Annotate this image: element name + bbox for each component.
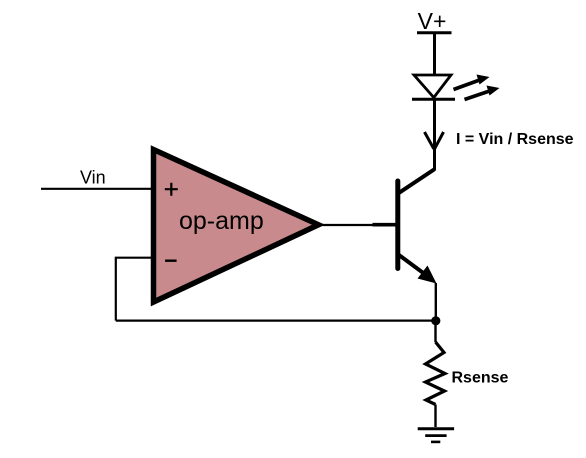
op-amp U1 body [154,150,319,303]
resistor Rsense lead top [434,323,436,342]
wire emitter to node [435,283,437,318]
power rail V+ bar [417,31,452,34]
LED light arrow 1 [454,75,490,90]
svg-text:Rsense: Rsense [452,370,509,387]
svg-text:V+: V+ [418,8,447,34]
wire op-amp output to base [323,224,375,226]
node junction dot [431,316,440,325]
wire feedback vertical [115,258,117,321]
transistor Q1 emitter lead with arrow [398,255,436,284]
LED D1 cathode bar [412,98,455,101]
svg-text:I = Vin / Rsense: I = Vin / Rsense [456,131,574,148]
svg-text:Vin: Vin [80,168,106,188]
wire LED cathode to collector [433,101,436,171]
ground bar 1 [418,427,454,430]
op-amp plus input symbol [165,183,178,196]
LED light arrow 2 [465,86,500,100]
wire Vin to non-inverting input [41,188,152,190]
wire node to feedback (bottom horizontal) [116,319,436,321]
op-amp minus input symbol [165,260,177,262]
wire feedback to inverting input [115,257,153,259]
svg-text:op-amp: op-amp [179,207,264,235]
transistor Q1 collector lead [399,169,435,193]
LED D1 triangle [414,75,451,98]
wire V+ to LED anode [433,34,436,77]
ground bar 2 [425,434,446,437]
resistor Rsense lead bottom [434,405,436,428]
transistor Q1 base bar [395,181,400,269]
transistor Q1 base lead stub [373,223,397,227]
current direction arrow on wire [425,132,444,149]
resistor Rsense zigzag [426,342,446,405]
ground bar 3 [431,441,440,444]
